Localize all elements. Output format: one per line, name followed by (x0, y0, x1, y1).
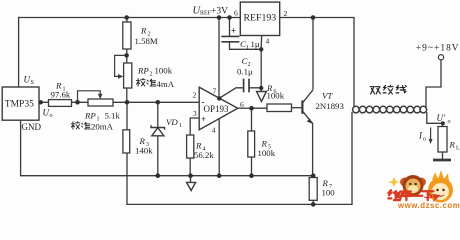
wire C1 top (229, 18, 231, 37)
label calibration 4mA (jiao zhun 4mA) (136, 78, 156, 86)
transistor VT collector stroke (303, 18, 313, 103)
svg-text:1: 1 (246, 45, 249, 51)
node dot output pin6/R5/R6 (249, 106, 254, 111)
svg-text:0.1μ: 0.1μ (237, 67, 253, 77)
svg-text:R: R (449, 140, 456, 150)
wire emitter down to R7 node (312, 123, 314, 175)
svg-text:U: U (43, 108, 50, 118)
ground symbol below R4 (187, 176, 196, 191)
svg-text:VT: VT (322, 90, 333, 100)
svg-text:+9~+18V: +9~+18V (416, 44, 460, 54)
ground bar below RL (433, 159, 451, 162)
wire twisted pair right up to +V terminal (426, 60, 441, 107)
node dot R1/RP1 junction (75, 100, 80, 105)
svg-text:100: 100 (322, 187, 336, 197)
wire R3 column down through ground rail to bottom return rail (126, 102, 128, 204)
svg-text:U′: U′ (437, 113, 446, 123)
svg-text:140k: 140k (135, 146, 153, 156)
wire collector rail from REF193 pin2 to twisted pair (280, 18, 354, 107)
watermark logo mascot left (monkey) (400, 175, 426, 196)
wire VD1 column (157, 102, 159, 175)
node dot emitter/R7/ground rail (311, 173, 316, 178)
node dot collector junction (311, 15, 316, 20)
potentiometer RP1 5.1k body (88, 99, 113, 106)
svg-text:o: o (448, 119, 451, 125)
svg-text:4: 4 (266, 37, 270, 46)
wire twisted pair right down to RL (427, 113, 443, 127)
resistor RL load (438, 127, 447, 153)
node dot rail/C1 (227, 15, 232, 20)
wire pin6 node to R6 (252, 107, 268, 109)
IC REF193 box (240, 2, 279, 35)
svg-text:2: 2 (193, 91, 197, 100)
svg-text:2: 2 (284, 9, 288, 18)
resistor R6 100k (267, 104, 292, 112)
potentiometer RP1 wiper rheostat loop (78, 91, 101, 102)
node dot ground rail VD1 (156, 173, 161, 178)
svg-text:6: 6 (240, 100, 244, 109)
node dot rail/pin7 (217, 15, 222, 20)
svg-text:GND: GND (22, 122, 42, 132)
ground symbol at C2 / REF193 pin4 (257, 92, 267, 102)
potentiometer RP2 wiper arrowhead (118, 74, 123, 79)
capacitor C2 0.1u plates (244, 79, 249, 93)
IC TMP35 box (2, 87, 39, 120)
node dot ground rail R4 (188, 173, 193, 178)
label twisted pair (shuang jiao xian) (370, 85, 406, 94)
svg-text:56.2k: 56.2k (194, 150, 214, 160)
svg-text:o: o (423, 137, 426, 143)
resistor R2 1.58M (123, 22, 131, 49)
svg-text:S: S (31, 80, 34, 86)
wire C2 right to pin4 column (249, 88, 261, 92)
resistor R7 100 (309, 178, 317, 201)
twisted pair coil (353, 106, 427, 113)
resistor R1 97.6k (49, 100, 72, 107)
svg-text:100k: 100k (267, 91, 285, 101)
node dot pin7 at op-amp edge (217, 96, 221, 100)
svg-text:L: L (456, 146, 460, 152)
resistor R4 56.2k (187, 135, 194, 158)
svg-text:RP: RP (137, 66, 149, 76)
watermark logo mascot right (orange) (428, 170, 453, 203)
svg-text:+: + (201, 114, 206, 124)
wire left supply drop to TMP35 top pin (US) (18, 18, 20, 88)
svg-text:1μ: 1μ (251, 39, 260, 49)
watermark logo text weikuyixia (red) (388, 190, 433, 200)
node dot TMP35 Uo pin (39, 100, 43, 104)
wire R4 bottom to ground rail (189, 158, 191, 176)
capacitor C1 1u plates (221, 36, 239, 41)
node dot R7 bottom rail (311, 202, 316, 207)
svg-text:+: + (231, 26, 236, 36)
svg-text:97.6k: 97.6k (51, 89, 71, 99)
wire op-amp pin3 to R4 (190, 118, 199, 135)
wire REF193 pin4 column (260, 36, 262, 89)
wire op-amp pin4 down to ground rail (218, 119, 220, 175)
svg-text:o: o (50, 113, 53, 119)
wire bottom return rail (127, 203, 352, 205)
svg-text:VD: VD (166, 117, 178, 127)
svg-text:TMP35: TMP35 (5, 100, 34, 110)
svg-text:R: R (140, 26, 147, 36)
node dot main line / VD1 (156, 100, 161, 105)
svg-text:20mA: 20mA (91, 122, 114, 132)
node dot ground rail pin4 (217, 173, 222, 178)
terminal circle +9~+18V (438, 55, 443, 60)
node dot U'o RL top (441, 121, 445, 125)
potentiometer RP2 100k body (124, 63, 132, 88)
wire R5 column (251, 108, 253, 176)
transistor VT emitter stroke (303, 112, 313, 124)
node dot RP2 tap (124, 53, 129, 58)
op-amp U1 OP193 triangle (199, 87, 238, 130)
svg-text:REF193: REF193 (244, 13, 277, 24)
svg-text:4: 4 (212, 125, 216, 134)
transistor VT base bar (301, 100, 303, 113)
watermark logo sparkle (388, 177, 400, 187)
wire RL bottom stub (442, 152, 444, 159)
resistor R3 140k (123, 130, 130, 153)
wire op-amp pin7 supply drop (218, 18, 220, 99)
svg-text:1: 1 (179, 123, 182, 129)
svg-text:100k: 100k (258, 148, 276, 158)
wire op-amp output pin6 (238, 107, 252, 109)
wire Uo output line to op-amp pin 2 (41, 101, 200, 103)
svg-text:5.1k: 5.1k (105, 111, 121, 121)
svg-text:+3V: +3V (211, 7, 228, 17)
svg-text:OP193: OP193 (204, 104, 230, 114)
svg-text:2N1893: 2N1893 (316, 101, 345, 111)
node dot ground rail R5 (249, 173, 254, 178)
svg-text:2: 2 (150, 72, 153, 78)
svg-text:1.58M: 1.58M (135, 36, 158, 46)
watermark logo arrow (424, 195, 440, 201)
node dot C1/pin4 (259, 47, 263, 51)
svg-text:U: U (24, 75, 31, 85)
svg-text:RP: RP (84, 111, 96, 121)
label calibration 20mA (jiao zhun 20mA) (71, 122, 90, 130)
svg-text:4mA: 4mA (157, 79, 175, 89)
svg-text:6: 6 (234, 9, 238, 18)
wire R7 top and bottom stubs (312, 176, 314, 205)
wire C1 bottom to REF193 pin4 node (230, 42, 262, 50)
node dot rail/R2 (124, 15, 129, 20)
potentiometer RP2 wiper rheostat loop (115, 55, 127, 76)
potentiometer RP1 wiper arrowhead (98, 94, 103, 99)
svg-text:www.dzsc.com: www.dzsc.com (397, 201, 460, 209)
svg-text:R: R (139, 136, 146, 146)
current Io arrow (430, 128, 432, 141)
wire diagonal pin7 to C2 (219, 88, 243, 98)
node dot main line / R3 column (125, 100, 130, 105)
wire TMP35 GND pin down (20, 120, 22, 176)
wire twisted pair left bottom return (351, 113, 353, 205)
resistor R5 100k (248, 131, 255, 157)
svg-text:100k: 100k (155, 66, 173, 76)
wire top +3V rail from left corner to REF193 pin 6 (19, 17, 241, 19)
transistor VT emitter arrowhead (307, 118, 313, 123)
svg-text:R: R (261, 139, 268, 149)
svg-text:7: 7 (213, 87, 217, 96)
zener diode VD1 body (151, 125, 165, 136)
svg-text:3: 3 (193, 109, 197, 118)
wire R6 to transistor base (292, 107, 303, 109)
svg-text:REF: REF (200, 11, 212, 17)
wire common ground rail (21, 175, 314, 177)
node dot C2/pin4 (259, 86, 263, 90)
wire R2/RP2 column (126, 18, 128, 103)
